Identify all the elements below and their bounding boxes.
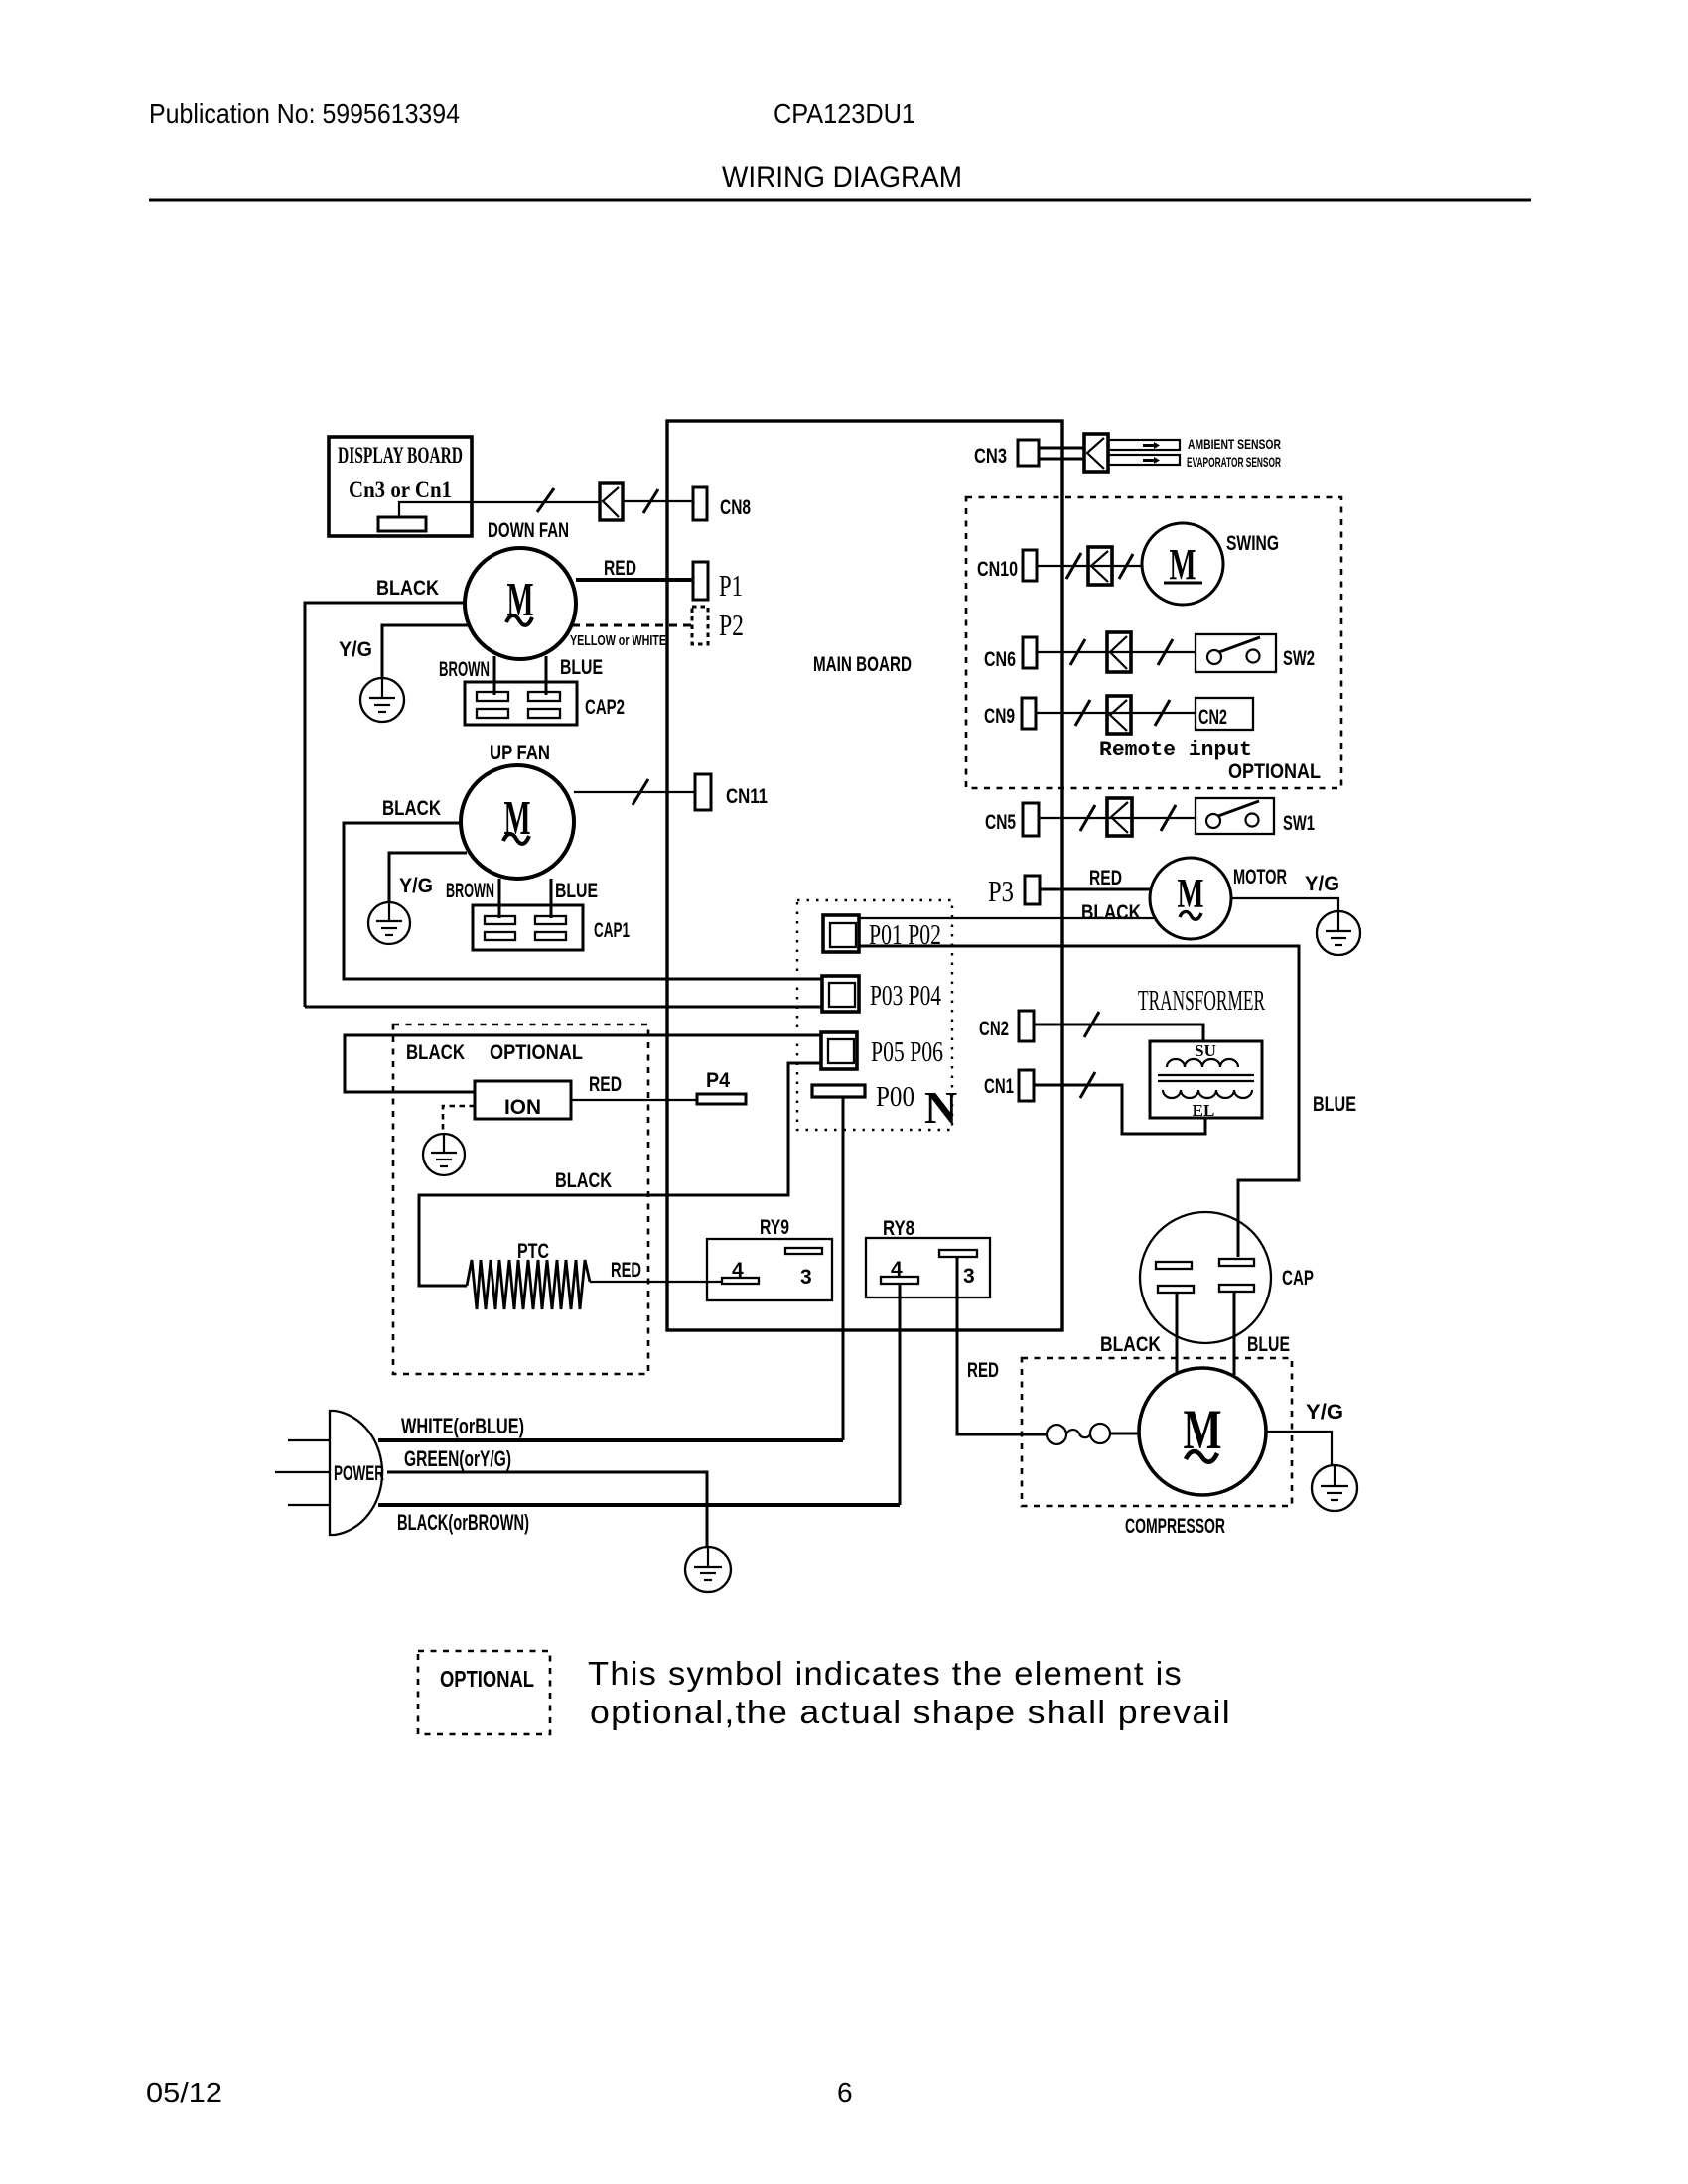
svg-text:05/12: 05/12 (146, 2077, 222, 2108)
svg-text:BLACK: BLACK (1081, 901, 1141, 924)
header rule (149, 199, 1531, 202)
svg-text:RY9: RY9 (760, 1216, 789, 1239)
svg-text:SW1: SW1 (1283, 812, 1315, 835)
wires CN3 to sensor plug (1039, 448, 1084, 459)
svg-text:BLUE: BLUE (555, 880, 598, 902)
svg-text:P2: P2 (719, 608, 744, 642)
connector P3 (988, 874, 1040, 908)
wire BLACK down fan (305, 577, 467, 1007)
svg-text:OPTIONAL: OPTIONAL (490, 1041, 583, 1064)
display board (329, 437, 472, 536)
svg-text:CN8: CN8 (720, 496, 751, 519)
wire CN5 to SW1 (1039, 817, 1196, 819)
wire GREEN(orY/G) (387, 1446, 707, 1546)
svg-text:CN5: CN5 (985, 811, 1016, 834)
svg-text:BLUE: BLUE (1313, 1093, 1356, 1116)
inline connector symbol (SW2) (1107, 632, 1131, 672)
wire BROWN up fan (446, 879, 499, 918)
switch SW2 (1196, 634, 1315, 672)
svg-text:P3: P3 (988, 874, 1014, 908)
svg-text:Publication No: 5995613394: Publication No: 5995613394 (149, 98, 460, 129)
svg-text:optional,the actual shape shal: optional,the actual shape shall prevail (590, 1694, 1231, 1730)
resistor PTC (467, 1240, 590, 1309)
switch SW1 (1196, 798, 1315, 835)
connector slash (633, 779, 648, 805)
wire RED RY8-3 to compressor (957, 1257, 1046, 1434)
wire BLACK cap to compressor (1100, 1293, 1177, 1372)
wire BLACK down fan to P04 (305, 1006, 822, 1009)
svg-text:CAP2: CAP2 (585, 696, 625, 719)
connector P4 (697, 1069, 746, 1104)
svg-text:Y/G: Y/G (1305, 873, 1339, 895)
svg-text:BROWN: BROWN (439, 658, 490, 681)
svg-text:PTC: PTC (517, 1240, 549, 1263)
svg-text:GREEN(orY/G): GREEN(orY/G) (404, 1446, 511, 1471)
motor DOWN FAN (465, 548, 576, 659)
ground (down fan) (360, 678, 404, 722)
header: title WIRING DIAGRAM (722, 161, 962, 194)
connector P1 (693, 562, 743, 603)
connector P01 P02 (823, 915, 941, 952)
ground (compressor) (1312, 1465, 1357, 1511)
transformer T1 (1138, 985, 1265, 1120)
dotted box around P connectors (797, 900, 952, 1130)
svg-text:P00: P00 (876, 1081, 914, 1113)
svg-text:WIRING DIAGRAM: WIRING DIAGRAM (722, 161, 962, 194)
overload protector (fuse) (1047, 1424, 1139, 1444)
svg-text:CAP1: CAP1 (594, 919, 630, 942)
wire BLACK up fan to P03 (344, 797, 822, 979)
svg-text:BLACK: BLACK (555, 1169, 612, 1192)
svg-text:P05 P06: P05 P06 (871, 1036, 943, 1068)
ground (up fan) (368, 901, 410, 944)
motor SWING (1142, 523, 1279, 605)
svg-text:WHITE(orBLUE): WHITE(orBLUE) (401, 1414, 524, 1438)
legend text (588, 1655, 1231, 1730)
svg-text:BLACK: BLACK (376, 577, 439, 600)
svg-text:N: N (924, 1082, 957, 1133)
wire BLUE up fan (551, 879, 598, 918)
main board U1 (667, 421, 1062, 1330)
wire Y/G up fan to ground (389, 853, 467, 901)
wire Y/G down fan to ground (339, 625, 470, 678)
svg-text:MAIN BOARD: MAIN BOARD (813, 653, 912, 676)
wire RED to P1 (576, 557, 693, 580)
wire up fan to CN11 (574, 791, 695, 793)
connector CN5 (985, 803, 1039, 836)
connector P2 (dashed) (692, 607, 744, 644)
connector slash (1070, 639, 1085, 665)
svg-text:RED: RED (967, 1359, 999, 1382)
connector slash (1161, 805, 1176, 831)
svg-text:Cn3 or Cn1: Cn3 or Cn1 (349, 478, 452, 502)
motor MOTOR (1150, 858, 1287, 939)
plug prong (288, 1439, 330, 1441)
inline connector symbol (SW1) (1107, 798, 1132, 836)
wire BLACK ION to P05 (345, 1035, 821, 1092)
wire CN10 to swing motor (1037, 565, 1142, 567)
wire BLUE P02 to CAP (859, 946, 1356, 1257)
inline connector symbol (remote) (1107, 696, 1131, 734)
label DOWN FAN (488, 519, 569, 542)
svg-text:SWING: SWING (1226, 532, 1279, 555)
svg-text:OPTIONAL: OPTIONAL (440, 1666, 534, 1692)
svg-text:DISPLAY BOARD: DISPLAY BOARD (338, 443, 463, 468)
svg-text:UP FAN: UP FAN (490, 742, 550, 764)
footer page number (837, 2077, 853, 2108)
svg-text:3: 3 (963, 1265, 975, 1288)
connector slash (1084, 1012, 1099, 1037)
wire CN6 to SW2 (1037, 651, 1196, 653)
connector slash (643, 489, 658, 513)
wire Y/G motor to ground (1231, 873, 1339, 911)
motor UP FAN (461, 765, 574, 879)
svg-text:CN11: CN11 (726, 785, 768, 808)
footer date (146, 2077, 222, 2108)
wire Y/G compressor to ground (1266, 1401, 1343, 1465)
connector CN8 (693, 487, 751, 520)
connector slash (1080, 1072, 1095, 1098)
svg-text:EL: EL (1193, 1101, 1215, 1120)
svg-text:M: M (1178, 872, 1204, 917)
svg-text:3: 3 (800, 1266, 812, 1289)
svg-text:ION: ION (504, 1096, 541, 1119)
dashed OPTIONAL box (ION / PTC) (393, 1024, 648, 1374)
svg-text:BLACK: BLACK (406, 1041, 465, 1064)
wire P00 to power WHITE (842, 1097, 845, 1440)
plug prong (288, 1504, 330, 1506)
inline connector symbol (swing) (1088, 547, 1112, 585)
svg-text:BLUE: BLUE (560, 656, 603, 679)
header: publication number (149, 98, 460, 129)
connector slash (1066, 553, 1081, 579)
inline connector symbol (display board lead) (600, 483, 623, 520)
connector P05 P06 (821, 1032, 943, 1069)
svg-text:SW2: SW2 (1283, 647, 1315, 670)
ground (power) (685, 1547, 731, 1592)
connector CN3 (974, 440, 1039, 468)
svg-text:CN3: CN3 (974, 445, 1007, 468)
header: model number (774, 98, 915, 129)
capacitor CAP1 (473, 905, 630, 950)
wire RED P3 to motor (1040, 867, 1152, 889)
svg-text:P03 P04: P03 P04 (870, 980, 941, 1012)
svg-text:EVAPORATOR SENSOR: EVAPORATOR SENSOR (1187, 454, 1281, 470)
display board pin header (378, 517, 426, 531)
svg-text:CN2: CN2 (979, 1018, 1009, 1040)
svg-text:CPA123DU1: CPA123DU1 (774, 98, 915, 129)
svg-text:RED: RED (611, 1259, 641, 1282)
label UP FAN (490, 742, 550, 764)
capacitor CAP2 (465, 682, 625, 725)
svg-text:MOTOR: MOTOR (1233, 866, 1287, 888)
node N (924, 1082, 957, 1133)
inline connector symbol (sensors) (1084, 434, 1108, 472)
svg-text:BLACK: BLACK (382, 797, 441, 820)
svg-text:6: 6 (837, 2077, 853, 2108)
wire BLUE cap to compressor (1234, 1292, 1290, 1375)
connector slash (537, 488, 554, 512)
svg-text:DOWN FAN: DOWN FAN (488, 519, 569, 542)
svg-text:Remote input: Remote input (1099, 738, 1252, 762)
svg-text:RED: RED (604, 557, 636, 580)
svg-text:CN9: CN9 (984, 705, 1015, 728)
connector slash (1119, 554, 1133, 579)
wire BLACK P01 to motor (859, 917, 1156, 919)
connector slash (1158, 639, 1173, 665)
label BLACK (motor) (1081, 901, 1141, 924)
svg-text:OPTIONAL: OPTIONAL (1228, 760, 1321, 783)
svg-text:CN2: CN2 (1198, 706, 1227, 729)
svg-text:AMBIENT SENSOR: AMBIENT SENSOR (1188, 436, 1281, 452)
connector P00 (812, 1081, 914, 1113)
ground (motor) (1317, 911, 1360, 955)
connector CN1 (984, 1070, 1034, 1101)
dashed wire ION to ground (443, 1106, 475, 1133)
svg-text:CAP: CAP (1282, 1267, 1314, 1290)
evaporator sensor probe (1108, 454, 1281, 470)
ionizer ION (475, 1081, 571, 1119)
svg-text:CN6: CN6 (984, 648, 1016, 671)
svg-text:BLACK: BLACK (1100, 1333, 1161, 1356)
svg-text:RED: RED (1089, 867, 1122, 889)
svg-text:This symbol indicates the elem: This symbol indicates the element is (588, 1655, 1183, 1692)
svg-text:YELLOW or WHITE: YELLOW or WHITE (570, 632, 666, 649)
wire RED PTC to RY9 (590, 1259, 722, 1282)
wire RY8-4 to power BLACK (899, 1284, 902, 1505)
relay RY9 (707, 1216, 832, 1300)
wire BLACK(orBROWN) (378, 1505, 900, 1535)
wire BROWN down fan (439, 656, 494, 695)
connector slash (1080, 805, 1095, 831)
wire P06 to PTC/RY9-3 junction (419, 1063, 821, 1286)
capacitor CAP (run cap) (1140, 1212, 1314, 1343)
svg-text:Y/G: Y/G (1306, 1401, 1343, 1424)
connector P03 P04 (822, 976, 941, 1012)
motor COMPRESSOR (1139, 1368, 1266, 1495)
svg-text:BROWN: BROWN (446, 880, 494, 902)
connector CN11 (695, 774, 768, 810)
svg-text:TRANSFORMER: TRANSFORMER (1138, 985, 1265, 1017)
svg-text:RY8: RY8 (883, 1217, 914, 1240)
svg-text:SU: SU (1195, 1041, 1216, 1060)
label BLACK (PTC) (555, 1169, 612, 1192)
svg-text:P1: P1 (719, 568, 743, 603)
wire YELLOW or WHITE (dashed) to P2 (570, 625, 692, 649)
wire CN9 to CN2 (1036, 712, 1196, 714)
dashed OPTIONAL box (swing/switches) (966, 497, 1341, 788)
connector slash (1075, 700, 1090, 726)
legend OPTIONAL box (418, 1651, 550, 1734)
wire display board to CN8 (399, 501, 693, 517)
connector CN2 (remote input) (1099, 698, 1253, 762)
wire CN2 to transformer (1034, 1024, 1203, 1041)
connector CN10 (977, 550, 1037, 581)
ambient sensor probe (1108, 436, 1281, 452)
svg-text:P4: P4 (706, 1069, 730, 1092)
svg-text:BLUE: BLUE (1247, 1333, 1290, 1356)
ground (ION) (423, 1134, 465, 1175)
connector slash (1155, 700, 1170, 726)
wire BLUE down fan (546, 656, 603, 695)
svg-text:BLACK(orBROWN): BLACK(orBROWN) (397, 1510, 529, 1535)
wire CN1 to transformer (1034, 1085, 1205, 1134)
connector CN6 (984, 637, 1037, 671)
svg-text:Y/G: Y/G (399, 875, 433, 897)
svg-text:CN10: CN10 (977, 558, 1018, 581)
svg-text:POWER: POWER (334, 1462, 384, 1485)
svg-text:Y/G: Y/G (339, 638, 372, 661)
svg-text:COMPRESSOR: COMPRESSOR (1125, 1515, 1225, 1538)
svg-text:CN1: CN1 (984, 1075, 1014, 1098)
wire RED ION to P4 (571, 1073, 697, 1100)
wire WHITE(orBLUE) (378, 1414, 843, 1440)
plug prong (275, 1471, 330, 1473)
connector CN9 (984, 698, 1036, 729)
relay RY8 (866, 1217, 990, 1297)
connector CN2 (main board left) (979, 1011, 1034, 1041)
power plug (330, 1411, 384, 1535)
dashed box COMPRESSOR (1022, 1358, 1292, 1538)
svg-text:RED: RED (589, 1073, 622, 1096)
